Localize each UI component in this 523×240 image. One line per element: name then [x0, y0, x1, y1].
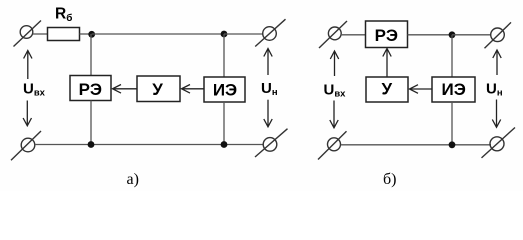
terminal X4 bottom-right output: [255, 129, 288, 157]
arrow U block up to RE: [383, 49, 391, 78]
svg-text:РЭ: РЭ: [375, 26, 398, 45]
wire RE to node C: [408, 34, 453, 36]
terminal X7 bottom-left input (b): [318, 131, 347, 159]
block RE (regulating element): [70, 76, 111, 101]
terminal X1 top-left input: [14, 21, 42, 47]
wire IE block down to bottom rail: [223, 102, 225, 145]
wire terminal X1 to resistor: [33, 33, 48, 35]
wire node B to terminal X2: [224, 33, 264, 35]
terminal X8 bottom-right output (b): [482, 128, 516, 158]
node B junction dot: [221, 31, 228, 38]
svg-text:У: У: [152, 80, 163, 99]
arrow Uvx down (b): [330, 101, 338, 128]
arrow Un up (a): [264, 49, 272, 76]
wire node B down to IE block: [223, 34, 225, 77]
block RE series (regulating element): [366, 21, 408, 48]
arrow Un up (b): [493, 50, 501, 75]
node C junction dot: [449, 31, 456, 38]
resistor Rb: [48, 28, 80, 41]
wire node C down to IE (b): [451, 35, 453, 77]
wire IE down to bottom rail (b): [451, 102, 453, 145]
arrow Uvx up (left): [24, 51, 32, 80]
wire node C to terminal X6: [452, 34, 491, 36]
terminal X2 top-right output: [255, 19, 285, 46]
arrow Uvx up (b): [330, 51, 338, 76]
wire node A down to RE block: [90, 34, 92, 76]
terminal X3 bottom-left input: [11, 131, 41, 160]
arrow Un down (b): [492, 100, 500, 128]
arrow IE to U (b): [410, 85, 433, 94]
svg-text:ИЭ: ИЭ: [442, 80, 466, 99]
arrow U to RE: [113, 85, 138, 94]
svg-text:б): б): [383, 171, 396, 188]
junction dot IE / bottom rail (b): [449, 141, 456, 148]
svg-text:а): а): [127, 171, 139, 188]
arrow IE to U: [182, 85, 205, 94]
node A junction dot: [88, 31, 95, 38]
arrow Un down (a): [264, 100, 272, 127]
terminal X6 top-right output: [485, 22, 512, 48]
block U amplifier (b): [366, 77, 408, 102]
wire resistor to node A: [80, 33, 92, 35]
wire bottom rail (b): [341, 144, 491, 146]
svg-text:ИЭ: ИЭ: [213, 81, 237, 100]
block IE (measuring element): [204, 77, 245, 102]
svg-text:РЭ: РЭ: [79, 80, 102, 99]
arrow Uvx down (left): [23, 101, 31, 126]
junction dot IE / bottom rail: [221, 141, 228, 148]
wire bottom rail: [35, 144, 263, 146]
wire RE block down to bottom rail: [90, 101, 92, 145]
junction dot RE / bottom rail: [88, 141, 95, 148]
block IE measuring element (b): [432, 77, 475, 102]
wire node A to node B (top rail): [92, 33, 224, 35]
terminal X5 top-left input: [319, 21, 347, 48]
svg-text:У: У: [382, 80, 393, 99]
wire terminal X5 to RE block: [341, 34, 366, 36]
block U (amplifier): [137, 76, 180, 102]
